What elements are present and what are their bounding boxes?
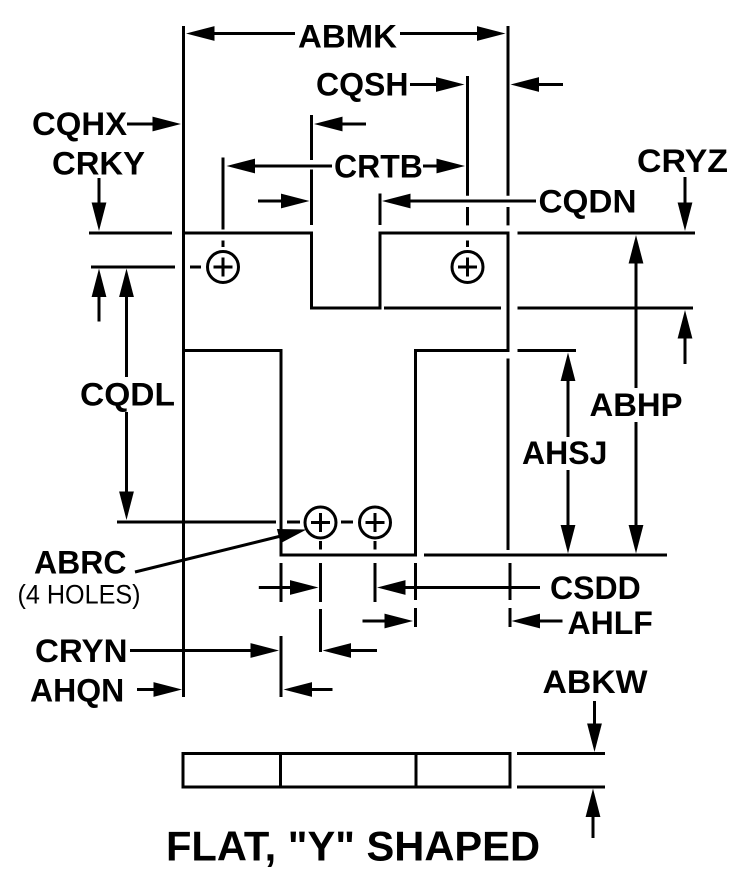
dimension AHQN left arrow	[137, 682, 182, 697]
extension line notch right (x=380)	[379, 194, 382, 226]
extension line top edge left of part (y=233)	[89, 232, 172, 235]
side view divider left (x=280.5)	[279, 754, 282, 788]
svg-text:CQSH: CQSH	[316, 66, 408, 102]
centerline dash below bottom-right hole	[374, 541, 377, 550]
hole bottom-right	[360, 507, 391, 538]
side view outline (edge view rectangle)	[183, 754, 510, 788]
svg-text:AHSJ: AHSJ	[522, 435, 607, 471]
dimension ABMK left arrow	[186, 26, 295, 41]
dimension CRYZ down arrow	[678, 177, 693, 231]
centerline dash above top-right hole	[466, 241, 469, 248]
dimension CQSH right arrow	[511, 77, 564, 92]
dimension ABKW up arrow	[586, 789, 601, 839]
extension line bottom edge right of part (y=555)	[424, 554, 667, 557]
centerline dash left of top-left hole	[190, 266, 201, 269]
svg-text:ABRC: ABRC	[34, 544, 126, 580]
extension line top edge right of part (y=233)	[518, 232, 696, 235]
dimension AHLF right arrow	[512, 614, 563, 629]
dimension AHLF left arrow	[363, 614, 414, 629]
dimension ABHP up arrow	[629, 235, 644, 388]
side view top edge extension (y=753.5)	[517, 752, 605, 755]
dimension AHSJ up arrow	[561, 353, 576, 438]
dashed extension below part right edge (x=510)	[509, 563, 512, 627]
dimension CQDL down arrow	[119, 412, 134, 520]
hole top-right	[452, 252, 483, 283]
dimension ABMK right arrow	[400, 26, 506, 41]
dimension CRKY up arrow	[92, 269, 107, 322]
dashed extension below body-left edge (x=281)	[280, 563, 283, 697]
dimension AHQN right arrow	[284, 682, 333, 697]
svg-text:AHLF: AHLF	[568, 605, 653, 641]
extension line notch left (x=311.5)	[310, 115, 313, 225]
dashed extension below bottom-right hole (x=375)	[374, 563, 377, 602]
extension line hole-center level left of part (y=267)	[91, 266, 175, 269]
svg-text:CRYZ: CRYZ	[637, 143, 728, 179]
dimension ABKW down arrow	[587, 701, 602, 752]
svg-text:CQHX: CQHX	[32, 106, 128, 142]
side view bottom edge extension (y=787)	[517, 786, 605, 789]
extension line notch bottom inside flange (y=308)	[384, 307, 501, 310]
svg-text:CQDN: CQDN	[539, 184, 637, 220]
svg-text:AHQN: AHQN	[30, 673, 124, 709]
dimension CRKY down arrow	[92, 178, 107, 231]
extension line hole-center line bottom left (y=522)	[117, 521, 276, 524]
dashed extension below bottom-left hole (x=320.5)	[319, 563, 322, 652]
dimension CRYN left arrow	[130, 643, 279, 658]
extension line shoulder level right of part (y=350.5)	[518, 349, 577, 352]
dimension CQHX left arrow	[127, 117, 181, 132]
centerline dash left of bottom-left hole	[287, 521, 300, 524]
hole top-left	[208, 252, 239, 283]
dashed extension below body-right edge (x=415.5)	[414, 563, 417, 627]
side view divider right (x=416)	[415, 754, 418, 788]
dimension CQDN right arrow	[382, 194, 536, 209]
part outline (front view, flat Y-shaped plate)	[184, 233, 509, 555]
extension line right hole center (x=467.5)	[466, 76, 469, 225]
svg-text:CRYN: CRYN	[35, 633, 128, 669]
extension line right edge lower (x=508)	[507, 359, 510, 551]
centerline dash between bottom holes	[341, 521, 353, 524]
dimension CQDL up arrow	[119, 269, 134, 378]
hole bottom-left	[305, 507, 336, 538]
dimension CRYN right arrow	[323, 643, 378, 658]
extension line notch bottom right of part (y=308)	[518, 307, 694, 310]
dimension CSDD left arrow	[259, 580, 319, 595]
dimension CQDN left arrow	[258, 194, 310, 209]
dimension CQHX right arrow	[314, 117, 366, 132]
dimension CRTB left arrow	[227, 159, 333, 174]
callout ABRC leader arrow	[135, 529, 307, 572]
dimension CQSH left arrow	[410, 77, 465, 92]
dimension AHSJ down arrow	[561, 470, 576, 554]
dimension CRYZ up arrow	[678, 310, 693, 364]
svg-text:ABMK: ABMK	[298, 19, 397, 55]
dimension CSDD right arrow	[377, 580, 540, 595]
svg-text:CSDD: CSDD	[550, 570, 641, 606]
svg-text:(4 HOLES): (4 HOLES)	[18, 580, 141, 610]
svg-text:CRTB: CRTB	[334, 148, 423, 184]
svg-text:CQDL: CQDL	[80, 377, 175, 413]
extension line top-left hole center (x=223)	[222, 158, 225, 230]
extension line left edge (x=183.5, full height)	[182, 26, 185, 697]
svg-text:ABKW: ABKW	[543, 664, 649, 700]
svg-text:FLAT, "Y" SHAPED: FLAT, "Y" SHAPED	[166, 823, 540, 870]
centerline dash above top-left hole	[222, 241, 225, 248]
dimension CRTB right arrow	[423, 159, 465, 174]
centerline dash below bottom-left hole	[319, 541, 322, 550]
svg-text:CRKY: CRKY	[52, 146, 145, 182]
dimension ABHP down arrow	[629, 422, 644, 554]
extension line right edge upper (x=508)	[507, 26, 510, 225]
svg-text:ABHP: ABHP	[590, 387, 683, 423]
